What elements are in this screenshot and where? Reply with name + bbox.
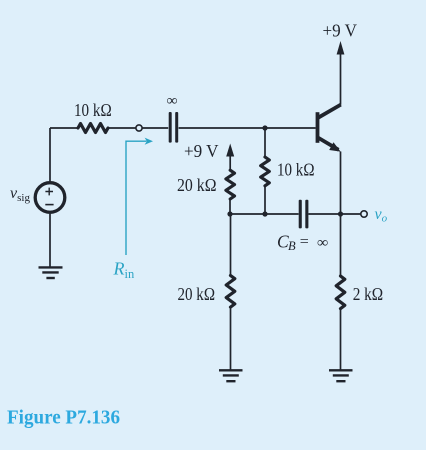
- svg-text:+9 V: +9 V: [323, 21, 358, 41]
- svg-text:+9 V: +9 V: [184, 141, 219, 161]
- svg-text:10 kΩ: 10 kΩ: [74, 100, 112, 120]
- svg-text:10 kΩ: 10 kΩ: [277, 160, 315, 180]
- svg-text:∞: ∞: [167, 93, 178, 109]
- svg-text:B: B: [288, 239, 296, 253]
- svg-text:20 kΩ: 20 kΩ: [178, 284, 216, 304]
- svg-text:∞: ∞: [317, 235, 328, 251]
- svg-text:Figure P7.136: Figure P7.136: [7, 407, 120, 429]
- svg-text:=: =: [300, 234, 309, 251]
- svg-text:20 kΩ: 20 kΩ: [177, 175, 217, 195]
- svg-text:2 kΩ: 2 kΩ: [353, 284, 384, 304]
